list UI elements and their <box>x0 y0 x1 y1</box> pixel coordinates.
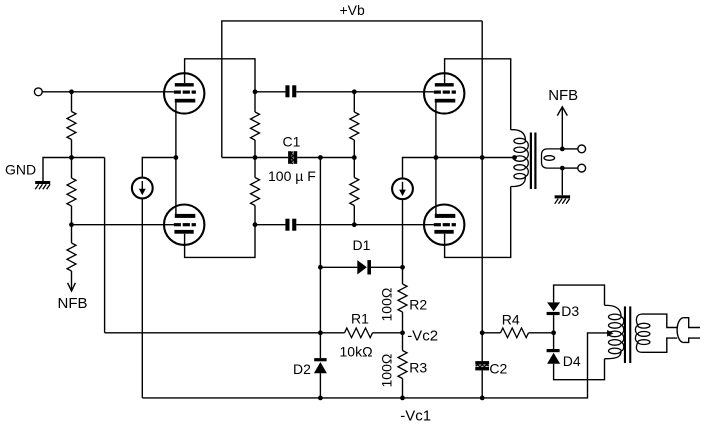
arrow NFB down <box>68 283 76 291</box>
node cathode junction left <box>174 155 179 160</box>
resistor divider a2 <box>254 158 256 178</box>
svg-text:C2: C2 <box>489 360 507 376</box>
current source I1 <box>132 178 153 199</box>
terminal out bottom <box>578 164 586 172</box>
triode V2 <box>164 205 204 245</box>
wire D1 row left <box>320 266 357 268</box>
capacitor C1 <box>288 151 292 164</box>
wire cap row top <box>255 91 285 93</box>
node bridge mid <box>551 330 556 335</box>
resistor divider a1 <box>254 92 256 112</box>
svg-text:10kΩ: 10kΩ <box>340 343 373 359</box>
resistor input divider upper <box>67 112 76 140</box>
node cathode junction right <box>434 155 439 160</box>
svg-text:D2: D2 <box>293 361 311 377</box>
node grid V3 divider <box>352 89 357 94</box>
resistor R3 <box>402 333 404 351</box>
terminal out top <box>578 145 586 153</box>
svg-text:100 µ F: 100 µ F <box>268 168 316 184</box>
svg-text:R2: R2 <box>409 296 427 312</box>
node mid a <box>253 155 258 160</box>
svg-text:D3: D3 <box>561 303 579 319</box>
capacitor coupling top <box>285 85 289 97</box>
wire grid divider top <box>71 92 73 112</box>
wire input to tube1 grid <box>42 91 174 93</box>
input terminal <box>34 88 42 96</box>
wire bridge top rail <box>554 285 605 305</box>
triode V1 <box>164 73 204 113</box>
ground output <box>555 195 571 198</box>
wire cathode link tubes 3-4 <box>435 101 437 215</box>
wire NFB arrow <box>561 109 563 149</box>
svg-text:-Vc2: -Vc2 <box>407 328 438 345</box>
wire V1 plate up and over <box>185 59 255 92</box>
node plate V1 <box>253 89 258 94</box>
node C2 bottom <box>480 396 485 401</box>
resistor NFB feedback <box>71 225 73 243</box>
node NFB tap <box>560 147 565 152</box>
transformer T2 primary <box>605 305 622 317</box>
resistor R1 <box>345 328 373 338</box>
diode D2 <box>314 358 326 361</box>
node +Vb drop <box>480 155 485 160</box>
wire R4 row <box>482 332 500 334</box>
transformer T1 secondary <box>542 149 563 168</box>
wire long drop x=104.6 to -Vc2 row <box>104 158 106 333</box>
node -Vc2 <box>400 330 405 335</box>
current source I2 <box>392 178 413 199</box>
svg-text:NFB: NFB <box>548 87 578 104</box>
wire to terminal top <box>562 148 578 150</box>
svg-text:GND: GND <box>5 162 36 178</box>
wire I2 bottom to D1 node <box>402 199 404 267</box>
resistor input divider lower <box>71 158 73 179</box>
svg-text:100Ω: 100Ω <box>379 354 395 388</box>
wire cap to tube3 grid <box>296 91 434 93</box>
transformer T2 secondary <box>636 314 641 326</box>
wire grid row tube2 <box>72 224 174 226</box>
diode D4 <box>553 333 555 349</box>
wire +Vb right drop full <box>481 21 483 361</box>
wire bias drop x=320.4 <box>319 158 321 268</box>
wire bridge bottom rail <box>554 359 605 380</box>
svg-text:R4: R4 <box>502 312 520 328</box>
ground GND <box>35 181 50 184</box>
wire I2 top to cathode node right <box>403 158 436 179</box>
wire mid row to x=104.6 <box>72 157 105 159</box>
svg-text:+Vb: +Vb <box>340 2 366 18</box>
wire V2 plate down and over <box>185 225 255 258</box>
svg-text:R1: R1 <box>351 310 369 326</box>
wire -Vc2 row left <box>105 332 345 334</box>
wire V3 plate to T1 top <box>445 59 511 130</box>
node cap row bottom b <box>352 222 357 227</box>
node mid-left junction <box>69 155 74 160</box>
wire <box>71 140 73 158</box>
svg-text:D4: D4 <box>563 353 581 369</box>
capacitor coupling bottom <box>285 219 289 231</box>
wire +Vb left drop corner to node <box>222 157 255 159</box>
node secondary gnd <box>560 166 565 171</box>
node D1 right <box>400 265 405 270</box>
svg-text:R3: R3 <box>409 359 427 375</box>
capacitor C2 <box>475 361 489 365</box>
core T1 <box>530 133 532 190</box>
svg-text:100Ω: 100Ω <box>379 288 395 322</box>
plug AC <box>677 318 683 343</box>
svg-text:D1: D1 <box>353 237 371 253</box>
wire cap row bottom <box>255 224 285 226</box>
wire C1 to divider b <box>297 157 354 159</box>
node grid2 junction <box>69 222 74 227</box>
node D1 left <box>318 265 323 270</box>
node bias tap <box>318 155 323 160</box>
triode V4 <box>424 205 464 245</box>
wire +Vb rail <box>222 21 482 158</box>
node R3 bottom <box>400 396 405 401</box>
wire secondary to plug bottom <box>641 338 677 352</box>
wire secondary to ground <box>561 168 563 195</box>
wire secondary to plug top <box>641 314 677 327</box>
arrow tap T2 <box>607 330 613 337</box>
resistor R4 <box>501 328 529 338</box>
wire cathode link tubes 1-2 <box>175 101 177 215</box>
node T1 center tap <box>512 155 517 160</box>
wire to ground drop <box>43 158 72 182</box>
node mid b <box>352 155 357 160</box>
core T2 <box>624 306 626 363</box>
wire -Vc1 rail <box>142 333 608 398</box>
wire mid row right <box>436 157 515 159</box>
wire to terminal bottom <box>562 167 578 169</box>
diode D3 <box>547 302 560 311</box>
wire bias drop to -Vc2 row <box>319 267 321 358</box>
node plate V2 <box>253 222 258 227</box>
wire I1 bottom to -Vc1 rail <box>141 198 143 398</box>
node C2 top <box>480 330 485 335</box>
svg-text:-Vc1: -Vc1 <box>400 407 431 424</box>
resistor R2 <box>402 267 404 284</box>
resistor divider b2 <box>353 158 355 178</box>
svg-text:C1: C1 <box>283 133 301 149</box>
wire mid row to C1 <box>255 157 288 159</box>
wire I1 top to cathode node <box>142 158 176 178</box>
diode D1 <box>357 260 367 274</box>
triode V3 <box>424 73 464 113</box>
wire V4 plate to T1 bottom <box>445 187 511 258</box>
svg-text:NFB: NFB <box>58 295 88 312</box>
transformer T1 primary <box>511 130 526 141</box>
node input junction <box>69 89 74 94</box>
wire D1 row right <box>371 266 403 268</box>
node D2 top <box>318 330 323 335</box>
wire cap to tube4 grid <box>296 224 434 226</box>
resistor divider b1 <box>353 92 355 112</box>
node D2 bottom <box>318 396 323 401</box>
